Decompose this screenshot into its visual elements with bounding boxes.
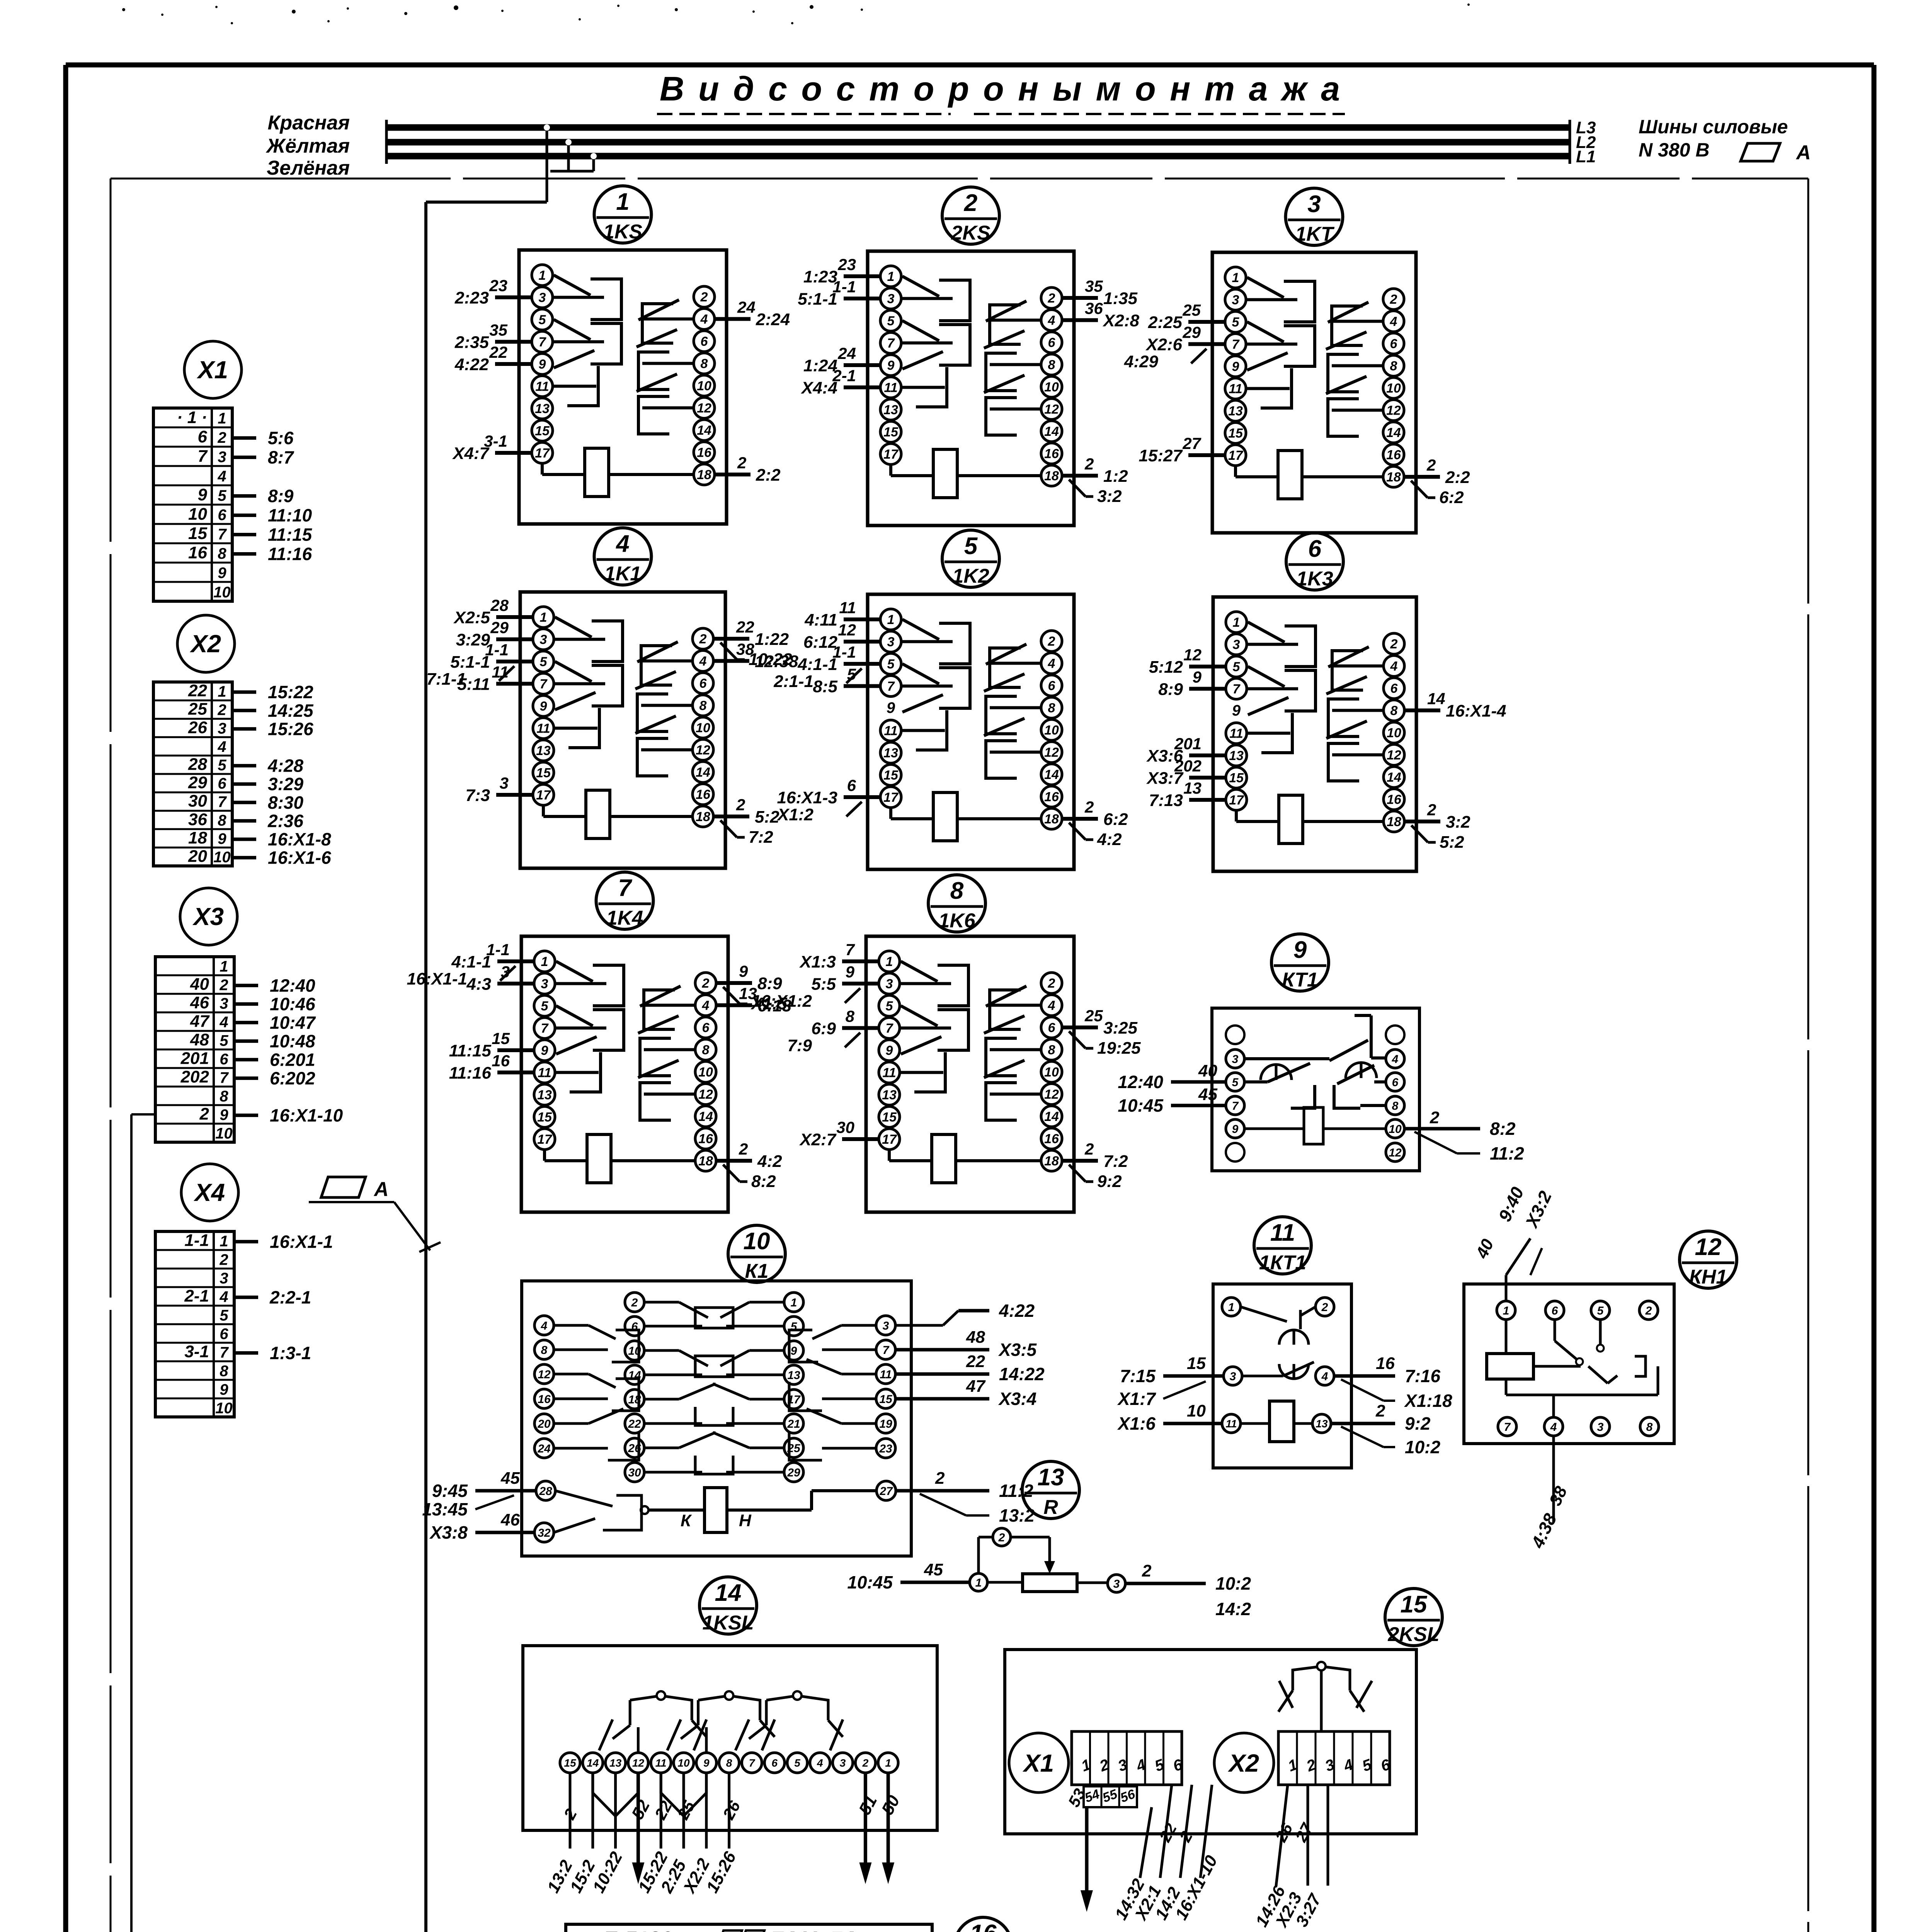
svg-text:47: 47: [966, 1377, 986, 1396]
relay 1K4 designator circle 7/1K4: [596, 872, 654, 929]
svg-text:20: 20: [188, 847, 207, 866]
switch block 15 (2KSL) designator: [1385, 1588, 1442, 1646]
relay 1K6 pins left column: [879, 951, 900, 1150]
svg-text:16:X1-10: 16:X1-10: [270, 1105, 343, 1125]
svg-text:13: 13: [787, 1369, 800, 1382]
svg-text:12: 12: [1183, 646, 1202, 664]
svg-text:5: 5: [539, 313, 546, 327]
relay 1K3 pins right column: [1384, 633, 1404, 832]
relay 1KS coil: [542, 448, 694, 497]
svg-text:18: 18: [696, 810, 710, 824]
svg-text:7: 7: [618, 875, 632, 901]
wire 7 to X1:3 at 1K6:1: [799, 940, 879, 971]
svg-text:12: 12: [538, 1368, 551, 1381]
svg-text:5: 5: [1232, 315, 1240, 330]
svg-text:8: 8: [220, 1362, 228, 1379]
svg-text:2:2: 2:2: [756, 466, 781, 485]
relay 1K6 body: [866, 936, 1074, 1212]
svg-text:7: 7: [218, 526, 227, 543]
wire from 1KSL:14 to 15:2: [566, 1773, 599, 1896]
svg-text:X1: X1: [1023, 1749, 1054, 1777]
svg-text:10: 10: [213, 584, 231, 601]
svg-text:4:29: 4:29: [1124, 352, 1159, 371]
svg-text:9: 9: [1293, 937, 1307, 963]
svg-text:16: 16: [492, 1052, 510, 1070]
wire 28 to X2:5 at 1K1:1: [453, 596, 533, 627]
relay 1KS body: [519, 250, 727, 524]
svg-text:1KT: 1KT: [1295, 223, 1334, 245]
svg-text:2:1-1: 2:1-1: [773, 672, 813, 691]
svg-text:35: 35: [489, 321, 507, 339]
svg-text:2: 2: [1321, 1301, 1328, 1314]
svg-text:8: 8: [726, 1757, 732, 1769]
svg-text:9: 9: [218, 830, 226, 847]
wire 2 to 2:2 at 1KT:18: [1404, 456, 1470, 507]
switch 1KSL pin row: [560, 1753, 898, 1773]
svg-text:3: 3: [218, 449, 226, 466]
svg-text:В и д с о с т о р о н ы: В и д с о с т о р о н ы м о н т а ж а: [660, 70, 1342, 108]
svg-text:7: 7: [1232, 337, 1240, 352]
wire to 16:X1-10: [1172, 1785, 1221, 1923]
svg-text:10: 10: [696, 721, 710, 735]
svg-text:2: 2: [1426, 456, 1436, 474]
svg-text:10:45: 10:45: [1118, 1095, 1164, 1116]
svg-text:11: 11: [655, 1757, 667, 1769]
svg-text:3: 3: [1113, 1578, 1120, 1590]
wire 2 to 3:2 at 1K3:18: [1404, 801, 1470, 852]
wire 36 to X2:8 at 2KS:4: [1062, 299, 1139, 330]
svg-text:4: 4: [217, 738, 226, 755]
unit A1 body: [566, 1924, 932, 1932]
svg-text:13: 13: [1183, 779, 1202, 797]
svg-text:17: 17: [883, 447, 899, 462]
wire 27 to 15:27 at 1KT:17: [1139, 434, 1225, 465]
svg-text:25: 25: [1084, 1007, 1103, 1025]
svg-text:16: 16: [697, 446, 712, 460]
svg-text:Шины силовые: Шины силовые: [1639, 116, 1788, 138]
svg-text:10:47: 10:47: [270, 1012, 316, 1032]
svg-text:10:2: 10:2: [1215, 1573, 1251, 1594]
svg-text:4: 4: [1390, 315, 1397, 329]
svg-text:7:16: 7:16: [1405, 1366, 1440, 1386]
svg-text:11:16: 11:16: [268, 544, 312, 564]
wire stub X3:7 to 6:202: [234, 1068, 315, 1088]
sheet title: Vid so storony montazha: [657, 70, 1345, 114]
svg-text:8: 8: [218, 812, 226, 829]
svg-text:15: 15: [536, 766, 551, 781]
svg-text:4: 4: [817, 1757, 823, 1769]
svg-text:6: 6: [1048, 1020, 1056, 1035]
svg-text:4:3: 4:3: [466, 975, 491, 994]
svg-text:А: А: [1795, 141, 1811, 164]
svg-text:6:202: 6:202: [270, 1068, 315, 1088]
wire 13 to 7:13 at 1K3:17: [1149, 779, 1226, 810]
svg-text:5: 5: [218, 487, 226, 504]
svg-text:9:45: 9:45: [432, 1481, 468, 1501]
svg-text:27: 27: [879, 1485, 893, 1498]
svg-text:6: 6: [771, 1757, 778, 1769]
svg-text:36: 36: [1085, 299, 1103, 318]
svg-text:12: 12: [632, 1757, 645, 1769]
svg-text:11: 11: [1225, 1418, 1237, 1430]
wire 15 to 7:15 X1:7 at 1KT1:3: [1117, 1354, 1224, 1409]
svg-text:7: 7: [539, 335, 547, 350]
svg-text:9: 9: [218, 565, 226, 582]
relay KH1 pins top: [1497, 1301, 1658, 1320]
svg-text:27: 27: [1182, 434, 1201, 452]
svg-text:17: 17: [882, 1132, 897, 1147]
wire 51 arrow down from 1KSL:2: [855, 1773, 881, 1884]
svg-text:16:X1-1: 16:X1-1: [407, 969, 467, 988]
svg-text:4: 4: [1048, 998, 1055, 1013]
svg-text:1KS: 1KS: [603, 221, 642, 243]
svg-text:46: 46: [190, 993, 209, 1012]
svg-text:4: 4: [1392, 1053, 1399, 1066]
svg-text:10: 10: [188, 505, 207, 524]
wire 2 to 7:2 at 1K6:18: [1062, 1140, 1128, 1191]
svg-text:X4: X4: [194, 1179, 225, 1206]
svg-text:8:2: 8:2: [1490, 1119, 1516, 1139]
power bus L1 (green): [386, 148, 1570, 164]
svg-text:2: 2: [737, 454, 746, 472]
svg-text:12:40: 12:40: [1118, 1072, 1163, 1092]
switch 1KSL cam contacts: [599, 1691, 843, 1753]
svg-text:18: 18: [697, 468, 711, 482]
wire 25 to 3:25 at 1K6:6: [1062, 1007, 1141, 1058]
svg-text:6: 6: [699, 676, 707, 691]
svg-text:8: 8: [702, 1043, 710, 1058]
relay 1K6 contact symbols: [900, 961, 1041, 1120]
svg-text:35: 35: [1085, 277, 1103, 295]
svg-text:16:X1-4: 16:X1-4: [1446, 702, 1506, 721]
svg-text:5: 5: [887, 314, 895, 328]
terminal strip X4 body: [155, 1231, 234, 1417]
svg-text:15: 15: [537, 1110, 552, 1125]
svg-text:48: 48: [190, 1030, 209, 1049]
svg-text:1: 1: [616, 189, 629, 215]
svg-text:5: 5: [220, 1032, 228, 1049]
svg-text:8: 8: [1390, 359, 1397, 374]
wire 5 to 8:5 at 1K2:7: [813, 665, 880, 696]
svg-text:29: 29: [1182, 323, 1201, 342]
wire from 1KSL:9 to X2:2: [679, 1773, 714, 1897]
svg-text:17: 17: [1229, 793, 1244, 808]
wire 2 to 1:2 at 2KS:18: [1062, 455, 1128, 506]
svg-text:7: 7: [220, 1069, 229, 1086]
svg-text:15: 15: [1401, 1591, 1428, 1618]
relay 1K2 pins left column: [880, 609, 901, 808]
svg-text:18: 18: [188, 828, 207, 847]
switch 2KSL X2 cam contact: [1271, 1662, 1372, 1731]
svg-text:5: 5: [886, 999, 893, 1014]
wire 48 to X3:5 at K1:7: [895, 1328, 1037, 1360]
svg-text:7: 7: [749, 1757, 756, 1769]
svg-text:1K4: 1K4: [606, 907, 643, 929]
svg-text:X1:7: X1:7: [1117, 1389, 1157, 1409]
resistor R pins: [970, 1528, 1125, 1592]
wire stub X2:3 to 15:26: [232, 719, 313, 739]
relay 1K4 contact symbols: [555, 961, 695, 1120]
relay 1K1 coil: [543, 790, 693, 838]
terminal strip X4 designator: [181, 1164, 238, 1221]
svg-text:13: 13: [535, 401, 550, 416]
svg-text:3-1: 3-1: [184, 1342, 209, 1361]
wire 1-1 to 4:1-1 at 1K4:1: [407, 940, 534, 988]
svg-text:15: 15: [188, 524, 207, 543]
terminal strip X3 body: [155, 957, 234, 1142]
wire stub X2:9 to 16:X1-8: [232, 829, 331, 849]
relay K1 pin column 1: [534, 1316, 554, 1458]
flag A on phase wire (left): [309, 1177, 441, 1252]
svg-text:10: 10: [1044, 1065, 1059, 1080]
svg-text:22: 22: [188, 681, 207, 700]
svg-text:8: 8: [950, 878, 964, 904]
wire stub X2:2 to 14:25: [232, 701, 314, 721]
svg-text:11: 11: [884, 381, 897, 395]
svg-text:6: 6: [1390, 337, 1398, 351]
svg-text:15: 15: [883, 425, 899, 440]
svg-text:14: 14: [1386, 425, 1401, 440]
wire 3 to 4:3 at 1K4:3: [466, 963, 534, 994]
relay 1K4 pins right column: [695, 973, 716, 1171]
svg-text:1K6: 1K6: [938, 910, 975, 932]
svg-text:2: 2: [935, 1469, 945, 1488]
svg-text:16: 16: [698, 1132, 713, 1146]
svg-text:14: 14: [698, 1109, 713, 1124]
svg-text:8:9: 8:9: [268, 486, 294, 506]
svg-text:12:40: 12:40: [270, 975, 315, 995]
svg-text:48: 48: [966, 1328, 985, 1347]
svg-text:4:2: 4:2: [757, 1152, 782, 1171]
svg-text:2: 2: [1048, 634, 1055, 649]
svg-text:7: 7: [846, 940, 855, 959]
relay 1KT1 coil: [1241, 1401, 1312, 1442]
svg-text:1: 1: [885, 1757, 891, 1769]
svg-text:Красная: Красная: [267, 112, 350, 134]
wire stub X1:7 to 11:15: [232, 525, 313, 545]
svg-text:16:X1-3: 16:X1-3: [777, 788, 837, 807]
svg-text:9: 9: [220, 1106, 228, 1123]
svg-text:9: 9: [846, 963, 855, 981]
relay 1K1 contact symbols: [554, 617, 693, 776]
svg-text:202: 202: [180, 1067, 209, 1086]
svg-text:2: 2: [1048, 291, 1055, 306]
svg-text:14: 14: [1044, 1109, 1059, 1124]
svg-text:16: 16: [1044, 1132, 1059, 1146]
wire 29 to X2:6 at 1KT:7: [1124, 323, 1225, 371]
wire: phase A drop from bus L3: [544, 124, 550, 202]
svg-text:6:9: 6:9: [811, 1019, 836, 1038]
svg-text:9: 9: [541, 1043, 548, 1058]
svg-text:13: 13: [882, 1088, 897, 1102]
svg-text:1: 1: [218, 410, 226, 427]
wire 35 to 1:35 at 2KS:2: [1062, 277, 1138, 308]
svg-text:12: 12: [1389, 1146, 1402, 1159]
relay K1 pin column 4: [876, 1316, 895, 1458]
svg-text:4:22: 4:22: [454, 355, 489, 374]
svg-text:11: 11: [1229, 726, 1243, 741]
svg-text:9: 9: [887, 699, 895, 716]
svg-text:14: 14: [697, 423, 711, 438]
svg-text:5:5: 5:5: [811, 975, 836, 994]
relay 1KS pins right column: [694, 286, 715, 485]
wire 3 to 7:3 at 1K1:17: [465, 774, 533, 805]
wire 13 to 6:13 at 1K4:4: [716, 985, 791, 1015]
svg-text:КТ1: КТ1: [1282, 969, 1318, 991]
svg-text:X4:7: X4:7: [452, 444, 490, 463]
svg-text:7: 7: [883, 1344, 890, 1357]
svg-text:28: 28: [490, 596, 509, 614]
svg-text:15: 15: [1228, 426, 1243, 441]
wire to 14:2: [1152, 1785, 1196, 1923]
svg-text:2: 2: [1645, 1304, 1652, 1317]
svg-text:9: 9: [198, 485, 208, 504]
wire 52 arrow down from 1KSL:12: [628, 1773, 654, 1884]
svg-text:10: 10: [677, 1757, 690, 1769]
svg-text:1: 1: [1503, 1304, 1510, 1317]
svg-text:16:X1-6: 16:X1-6: [268, 848, 331, 868]
relay 1K2 designator circle 5/1K2: [942, 530, 999, 587]
relay K1 pin column 3: [784, 1293, 803, 1482]
svg-text:9: 9: [739, 962, 748, 980]
svg-text:8:9: 8:9: [757, 974, 782, 993]
svg-text:1КТ1: 1КТ1: [1259, 1252, 1306, 1274]
svg-text:16: 16: [970, 1920, 997, 1932]
svg-text:10: 10: [1044, 380, 1059, 395]
svg-text:11: 11: [492, 663, 509, 681]
svg-text:3: 3: [1230, 1370, 1236, 1383]
svg-text:2KS: 2KS: [951, 222, 990, 244]
svg-text:14: 14: [696, 765, 710, 780]
relay K1 coil K H with pins 28 32 27: [534, 1481, 896, 1542]
svg-text:14:25: 14:25: [268, 701, 314, 721]
svg-text:X2: X2: [1228, 1749, 1259, 1777]
svg-text:7:9: 7:9: [787, 1036, 812, 1055]
svg-text:23: 23: [489, 277, 507, 295]
svg-text:28: 28: [188, 755, 207, 774]
wire 3-1 to X4:7 at 1KS:17: [452, 432, 532, 463]
relay 1K1 designator circle 4/1K1: [594, 528, 652, 585]
svg-text:2: 2: [998, 1531, 1005, 1544]
svg-text:14: 14: [1387, 770, 1401, 785]
bus labels L3 L2 L1: [1576, 118, 1596, 166]
svg-text:15: 15: [882, 1110, 897, 1125]
wire 1-1 to 5:1-1 at 1K1:5: [426, 641, 533, 689]
switch 2KSL connector X1 designator: [1009, 1733, 1069, 1793]
relay 1K3 body: [1213, 597, 1416, 871]
svg-text:5:6: 5:6: [268, 428, 294, 448]
relay 1KT pins left column: [1225, 267, 1246, 466]
svg-text:5: 5: [1232, 1076, 1239, 1089]
svg-text:10:46: 10:46: [270, 994, 315, 1014]
svg-text:8: 8: [1048, 358, 1055, 372]
svg-text:4: 4: [1390, 659, 1398, 674]
svg-text:5: 5: [794, 1757, 800, 1769]
svg-text:5:1-1: 5:1-1: [450, 653, 490, 672]
svg-text:22: 22: [966, 1352, 985, 1371]
svg-text:1: 1: [1228, 1301, 1235, 1314]
svg-text:4: 4: [1048, 656, 1055, 671]
wire to 14:32: [1111, 1807, 1152, 1923]
svg-text:1: 1: [220, 958, 228, 975]
bus colour labels: [265, 112, 350, 179]
svg-text:X3: X3: [192, 903, 224, 930]
svg-text:9: 9: [887, 358, 895, 373]
relay 1K2 contact symbols: [901, 619, 1041, 778]
svg-text:7:3: 7:3: [465, 786, 490, 805]
wire 25 to 2:25 at 1KT:5: [1148, 301, 1225, 332]
relay KT1 time-delay contacts: [1244, 1015, 1386, 1108]
svg-text:16: 16: [1387, 793, 1402, 807]
svg-text:5:1-1: 5:1-1: [798, 290, 837, 309]
svg-text:9: 9: [886, 1043, 893, 1058]
wire from 1KSL:11 to 15:22: [635, 1773, 676, 1896]
svg-text:6:201: 6:201: [270, 1049, 315, 1070]
svg-text:47: 47: [190, 1012, 210, 1031]
svg-text:7: 7: [218, 794, 227, 811]
svg-text:13: 13: [1228, 404, 1243, 418]
svg-text:8: 8: [1646, 1421, 1653, 1434]
wire stub X3:2 to 12:40: [234, 975, 315, 995]
svg-text:1-1: 1-1: [184, 1231, 209, 1250]
svg-text:8: 8: [699, 699, 707, 713]
wire 35 to 2:35 at 1KS:7: [454, 321, 532, 352]
svg-text:X3:5: X3:5: [998, 1340, 1037, 1360]
svg-text:8: 8: [541, 1344, 548, 1357]
wire 45 to 10:45 at KT1:7: [1118, 1085, 1226, 1116]
svg-text:8:7: 8:7: [268, 447, 294, 468]
svg-text:X1:6: X1:6: [1117, 1413, 1156, 1434]
svg-text:7: 7: [1233, 682, 1241, 697]
svg-text:3: 3: [887, 635, 895, 650]
svg-text:2: 2: [219, 1251, 228, 1268]
svg-text:X2:6: X2:6: [1145, 335, 1182, 354]
svg-text:X1: X1: [197, 356, 228, 384]
svg-text:1: 1: [539, 268, 546, 283]
svg-text:4:1-1: 4:1-1: [451, 952, 491, 971]
switch 2KSL body: [1005, 1650, 1416, 1834]
svg-text:5: 5: [540, 655, 548, 669]
svg-text:18: 18: [1044, 1154, 1059, 1168]
svg-text:1KSL: 1KSL: [703, 1612, 754, 1634]
wire 23 to 2:23 at 1KS:3: [454, 277, 532, 308]
svg-text:Н: Н: [739, 1511, 752, 1530]
svg-text:1: 1: [1232, 270, 1239, 285]
relay 1K4 coil: [545, 1134, 695, 1183]
svg-text:3: 3: [220, 995, 228, 1012]
svg-text:7: 7: [887, 336, 895, 351]
svg-text:3: 3: [218, 720, 226, 737]
svg-text:8:5: 8:5: [813, 677, 837, 696]
relay KT1 body: [1212, 1008, 1419, 1171]
wire stub X3:3 to 10:46: [234, 994, 315, 1014]
wire 8 to 6:9 at 1K6:7: [787, 1007, 879, 1055]
relay 1K3 designator circle 6/1K3: [1286, 533, 1343, 590]
svg-text:15: 15: [564, 1757, 576, 1769]
svg-text:4:1-1: 4:1-1: [797, 655, 837, 674]
svg-text:7:15: 7:15: [1120, 1366, 1156, 1386]
svg-text:6: 6: [1308, 536, 1322, 562]
svg-text:X1:18: X1:18: [1404, 1391, 1452, 1411]
svg-text:5: 5: [218, 757, 226, 774]
wire from 1KSL:15 to 13:2: [544, 1773, 580, 1896]
wire 22 to 1:22 at 1K1:2: [713, 618, 792, 669]
svg-text:29: 29: [188, 773, 207, 792]
svg-text:4: 4: [219, 1014, 228, 1031]
svg-text:X3:4: X3:4: [998, 1389, 1036, 1409]
svg-text:2:2-1: 2:2-1: [269, 1287, 311, 1307]
wire 22 to 4:22 at 1KS:9: [454, 343, 532, 374]
